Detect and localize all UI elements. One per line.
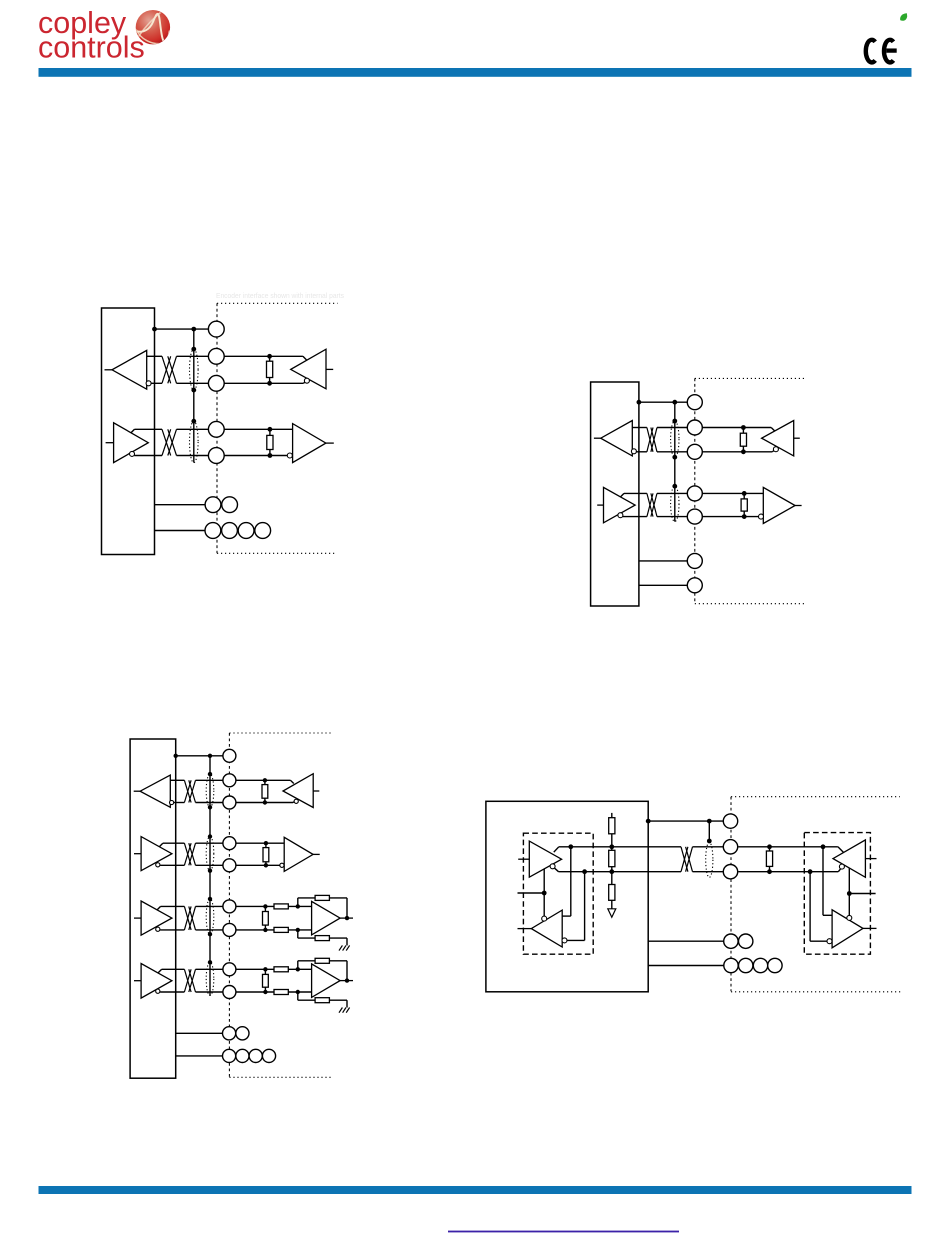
junction noninverting input: [296, 904, 300, 908]
wire aux pair: [176, 1032, 223, 1034]
driver U15 inverted output jog: [555, 868, 559, 872]
junction shield box edge: [646, 819, 651, 824]
connector pins aux quad: [205, 523, 221, 539]
junction drain/shield1 top: [191, 347, 196, 352]
dotted interface border bottom: [731, 991, 901, 993]
wire aux 1: [639, 560, 687, 562]
receiver U1 (in drive, row1): [112, 350, 147, 389]
driver U2 (in drive, row2): [114, 423, 149, 463]
wire row1 noninverting: [147, 355, 162, 357]
crossover wire B to receiver: [584, 872, 586, 941]
bubble U17 input: [839, 864, 844, 869]
schematic 1: drive with differential encoder buffers: [102, 303, 338, 554]
junction enable right: [847, 891, 852, 896]
twisted pair: [681, 847, 688, 872]
driver U10 (row2): [141, 837, 172, 871]
dashed connector line: [694, 378, 696, 603]
device box (drive): [591, 382, 639, 606]
connector pin row1+: [208, 348, 224, 364]
junction op-amp output: [345, 916, 349, 920]
driver U15 output jog: [554, 847, 559, 852]
receiver U16 (left): [531, 910, 562, 947]
junction drain wire: [208, 960, 212, 964]
junction inverting input: [296, 928, 300, 932]
footer link underline: [448, 1231, 679, 1233]
connector pin shield: [687, 395, 702, 410]
connector pin row1+: [223, 774, 236, 787]
shield ellipse row2: [190, 421, 199, 462]
bubble U3 inverting: [304, 378, 309, 383]
wire row1 noninverting: [170, 779, 184, 781]
twisted pair row2: [162, 429, 171, 455]
twisted pair row3: [184, 906, 191, 930]
junction R3 top: [741, 425, 746, 430]
connector pin row3+: [223, 900, 236, 913]
wire shield row: [155, 328, 209, 330]
receiver U9 (in drive, row1): [140, 775, 170, 807]
connector pin row2+: [687, 486, 702, 501]
receiver U8 (external, row2): [763, 487, 795, 523]
crossover wire B to driver: [809, 872, 811, 942]
junction R20 bottom: [767, 869, 772, 874]
dotted interface border top: [695, 377, 805, 379]
connector pin row3-: [223, 923, 236, 936]
pull-up resistor R17: [609, 818, 615, 834]
junction stack A: [609, 844, 614, 849]
bubble U8 inverting: [759, 514, 764, 519]
device box (drive): [102, 308, 155, 555]
wire row2 noninverting: [131, 429, 135, 433]
junction R3 bottom: [741, 449, 746, 454]
bubble enable U18: [847, 915, 852, 920]
wire shield row: [639, 401, 687, 403]
bubble U5 inverting: [631, 449, 636, 454]
termination resistor R2: [269, 429, 271, 455]
receiver U4 (external, row2): [293, 424, 326, 463]
svg-text:Encoder interface shown with i: Encoder interface shown with internal pa…: [216, 291, 344, 300]
crossover wire A to driver: [822, 847, 824, 916]
junction B right: [808, 869, 813, 874]
bubble enable U16: [542, 916, 547, 921]
bubble U13 inverting: [294, 799, 298, 803]
junction drain/shield1 top: [672, 419, 677, 424]
connector pin row2+: [208, 421, 224, 437]
twisted pair row2: [184, 843, 191, 865]
bubble U10 inverting output: [156, 863, 160, 867]
twisted pair row1: [184, 780, 191, 802]
connector pin row2+: [223, 837, 236, 850]
junction on box edge: [152, 327, 157, 332]
wire shield drain: [708, 821, 710, 842]
connector pin shield: [723, 814, 737, 828]
bubble U12 inverting output: [156, 989, 160, 993]
twisted pair row2: [647, 493, 653, 516]
shield ellipse row3: [206, 899, 214, 934]
pull-down resistor R19: [609, 885, 615, 901]
junction enable: [542, 891, 547, 896]
junction B: [582, 869, 587, 874]
junction R2 bottom: [268, 453, 273, 458]
schematic 4: RS-485 transceiver interface: [486, 797, 901, 992]
series resistor R14 bottom: [274, 990, 288, 995]
bubble U16 input: [562, 938, 567, 943]
twisted pair row4: [184, 969, 191, 992]
wire shield drain vertical: [674, 402, 676, 521]
wire shield drain vertical: [209, 756, 211, 996]
junction R12 bottom: [263, 990, 267, 994]
dashed connector line: [228, 733, 230, 1077]
junction noninverting input: [296, 967, 300, 971]
bias resistor stack wire: [611, 813, 613, 909]
termination resistor R1: [269, 356, 271, 383]
connector pin row2-: [223, 859, 236, 872]
connector pin row2-: [208, 448, 224, 464]
enable wire right: [848, 868, 850, 916]
termination resistor R6: [265, 843, 267, 865]
connector pin: shield row1: [208, 321, 224, 337]
wire B line: [559, 871, 682, 873]
series resistor R8 top: [274, 904, 288, 909]
bottom blue rule: [39, 1186, 912, 1194]
termination resistor R20: [769, 847, 771, 872]
driver U11 (row3): [141, 901, 172, 935]
termination resistor R7: [264, 906, 266, 930]
bubble U7 inverting: [773, 447, 778, 452]
shield ellipse row2: [206, 837, 214, 871]
junction inverting input: [296, 990, 300, 994]
dotted interface border top: [229, 732, 332, 734]
junction R4 top: [742, 491, 747, 496]
wire row2 noninverting: [159, 843, 163, 847]
junction drain/shield2 top: [191, 419, 196, 424]
transceiver dashed box left: [523, 833, 593, 954]
junction drain/ellipse: [707, 839, 712, 844]
connector pin row4-: [223, 986, 236, 999]
junction R7 bottom: [263, 928, 267, 932]
wire aux quad: [176, 1055, 223, 1057]
series resistor R13 top: [274, 967, 288, 972]
junction shield tee: [191, 327, 196, 332]
junction drain wire: [208, 897, 212, 901]
wire row1 inverting: [636, 451, 647, 453]
junction drain/shield1 bottom: [672, 455, 677, 460]
top blue rule: [39, 68, 912, 77]
termination resistor R5: [264, 780, 266, 802]
wire aux pair: [155, 504, 206, 506]
bubble U6 inverting output: [618, 513, 623, 518]
junction stack B: [609, 869, 614, 874]
feedback resistor R10: [315, 895, 329, 900]
connector pin A: [723, 840, 737, 854]
line resistor R18: [609, 850, 615, 866]
wire row4 noninverting: [158, 969, 162, 973]
series resistor R9 bottom: [274, 927, 288, 932]
wire row1 inverting: [151, 382, 162, 384]
dotted interface border top: [217, 302, 338, 304]
twisted pair row1: [162, 356, 171, 383]
schematic 3: drive with 4 differential channels: [130, 733, 353, 1078]
driver U6 (in drive, row2): [604, 487, 636, 522]
ground reference wire: [297, 992, 299, 1000]
connector pin row1-: [208, 375, 224, 391]
dotted interface border bottom: [229, 1076, 333, 1078]
shield ellipse: [706, 842, 713, 877]
driver U12 (row4): [141, 964, 172, 999]
feedback resistor R15: [315, 958, 329, 963]
dotted interface border bottom: [695, 603, 805, 605]
dashed connector line: [216, 303, 218, 553]
receiver U17 (right): [833, 840, 865, 877]
device box (drive): [486, 801, 648, 992]
logo sphere: [136, 10, 170, 44]
op-amp: [312, 901, 341, 935]
junction shield tee: [707, 819, 712, 824]
feedback loop wire: [297, 898, 299, 907]
wire row3 noninverting: [157, 906, 161, 910]
junction R5 bottom: [263, 800, 267, 804]
junction R4 bottom: [742, 514, 747, 519]
wire row2 inverting: [160, 864, 184, 866]
wire row2 inverting: [623, 516, 647, 518]
dotted interface border bottom: [217, 552, 337, 554]
connector pin shield: [223, 749, 236, 762]
driver U18 (right): [832, 910, 863, 948]
twisted pair row1: [647, 428, 653, 452]
junction drain wire: [208, 772, 212, 776]
bubble U4 inverting: [287, 453, 292, 458]
connector pins aux pair: [205, 497, 221, 513]
junction R7 top: [263, 904, 267, 908]
junction on box edge: [174, 754, 178, 758]
wire row3 inverting: [160, 929, 184, 931]
receiver U7 (external, row1): [762, 421, 794, 456]
receiver U3 (external, row1): [291, 349, 326, 389]
wire aux pair: [648, 940, 724, 942]
shield ellipse row4: [206, 962, 214, 995]
shield ellipse row1: [190, 349, 199, 390]
junction A: [568, 844, 573, 849]
connector pin aux 2: [687, 578, 702, 593]
junction R12 top: [263, 967, 267, 971]
shield ellipse row2: [671, 486, 679, 521]
junction R6 bottom: [264, 863, 268, 867]
ground resistor R11: [315, 936, 329, 941]
junction op-amp output: [345, 978, 349, 982]
wire shield row: [176, 755, 223, 757]
driver U15 (left): [529, 841, 561, 877]
dashed connector line: [730, 797, 732, 992]
connector pins aux pair: [724, 934, 738, 948]
connector pin row1-: [687, 444, 702, 459]
wire A line: [559, 846, 681, 848]
junction R5 top: [263, 778, 267, 782]
receiver U5 (in drive, row1): [601, 421, 633, 456]
dotted interface border top: [731, 796, 900, 798]
connector pin row1-: [223, 796, 236, 809]
bubble U2 inverting output: [130, 451, 135, 456]
connector pin B: [723, 865, 737, 879]
wire row1 inverting: [174, 802, 185, 804]
transceiver dashed box right: [804, 833, 870, 955]
connector pins aux quad: [724, 958, 738, 972]
wire row4 inverting: [160, 991, 184, 993]
termination resistor R12: [264, 969, 266, 992]
junction drain/shield2 top: [672, 484, 677, 489]
bubble U9 inverting: [170, 800, 174, 804]
junction drain wire: [208, 805, 212, 809]
junction R1 bottom: [267, 381, 272, 386]
junction A right: [821, 844, 826, 849]
logo text copley controls: [38, 6, 145, 65]
device box (drive): [130, 739, 176, 1078]
junction drain wire: [208, 932, 212, 936]
chassis ground: [339, 1008, 342, 1013]
CE mark: [866, 40, 894, 63]
junction shield tee: [208, 754, 212, 758]
termination resistor R3: [742, 428, 744, 452]
bubble U11 inverting output: [156, 927, 160, 931]
schematic 2: drive encoder interface: [591, 378, 805, 606]
wire row1 noninverting: [632, 427, 647, 429]
wire aux quad: [648, 965, 724, 967]
junction R20 top: [767, 844, 772, 849]
wire shield row: [648, 820, 723, 822]
connector pin row2-: [687, 509, 702, 524]
wire row2 inverting: [134, 455, 162, 457]
op-amp: [312, 964, 341, 998]
junction R6 top: [264, 841, 268, 845]
ground resistor R16: [315, 998, 329, 1003]
bubble U15 inverting output: [550, 864, 555, 869]
connector pin aux 1: [687, 553, 702, 568]
connector pins aux pair: [223, 1027, 236, 1040]
bubble U1 inverting: [146, 381, 151, 386]
feedback loop wire: [297, 961, 299, 970]
shield ellipse row1: [206, 774, 214, 807]
ground reference wire: [297, 930, 299, 938]
connector pin row4+: [223, 963, 236, 976]
junction on box edge: [637, 400, 642, 405]
wire aux quad: [155, 530, 206, 532]
junction drain/shield1 bottom: [191, 388, 196, 393]
green leaf icon: [900, 13, 907, 21]
junction shield tee: [672, 400, 677, 405]
svg-text:controls: controls: [38, 31, 145, 65]
termination resistor R4: [743, 493, 745, 516]
junction R1 top: [267, 354, 272, 359]
wire row2 noninverting: [621, 493, 625, 497]
wire shield drain vertical: [193, 329, 195, 463]
junction drain wire: [208, 869, 212, 873]
connector pins aux quad: [223, 1049, 236, 1062]
signal ground symbol: [608, 909, 616, 917]
junction R2 top: [268, 427, 273, 432]
bubble U18 input: [827, 939, 832, 944]
enable wire: [518, 892, 545, 894]
bubble U14 inverting: [280, 863, 284, 867]
crossover wire A to receiver: [570, 847, 572, 916]
chassis ground: [339, 945, 342, 950]
wire aux 2: [639, 584, 687, 586]
receiver U13 (external row1): [283, 774, 313, 808]
connector pin row1+: [687, 420, 702, 435]
receiver U14 (external row2): [284, 837, 313, 871]
junction drain wire: [208, 834, 212, 838]
shield ellipse row1: [671, 421, 679, 457]
